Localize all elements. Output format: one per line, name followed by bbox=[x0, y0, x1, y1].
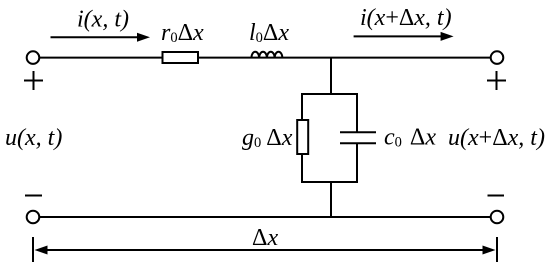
parallel box bottom bar bbox=[302, 181, 357, 183]
svg-text:i(x+Δx, t): i(x+Δx, t) bbox=[360, 5, 452, 31]
svg-text:l0Δx: l0Δx bbox=[249, 20, 289, 46]
dimension tick left bbox=[32, 237, 34, 262]
node stem bottom bbox=[330, 182, 332, 217]
minus sign right bbox=[488, 195, 505, 197]
minus sign left bbox=[25, 195, 42, 197]
wire right branch upper bbox=[356, 93, 358, 132]
inductor L l0dx bbox=[251, 52, 282, 58]
parallel box top bar bbox=[302, 93, 357, 95]
dimension line bbox=[45, 249, 485, 251]
svg-text:u(x, t): u(x, t) bbox=[5, 125, 62, 151]
terminal circle top-left bbox=[27, 51, 40, 64]
resistor R r0dx bbox=[163, 52, 199, 63]
capacitor C c0dx bbox=[340, 132, 376, 143]
dimension tick right bbox=[496, 237, 498, 262]
terminal circle bottom-left bbox=[27, 211, 40, 224]
current arrow i(x,t) bbox=[51, 33, 151, 42]
node stem top bbox=[330, 58, 332, 94]
current arrow i(x+dx,t) bbox=[354, 32, 454, 41]
dimension arrowhead right bbox=[483, 246, 496, 255]
wire left branch lower bbox=[301, 154, 303, 183]
top wire bbox=[40, 57, 491, 59]
terminal circle bottom-right bbox=[491, 211, 504, 224]
bottom wire bbox=[40, 216, 491, 218]
plus sign left bbox=[24, 71, 43, 90]
wire right branch lower bbox=[356, 143, 358, 183]
svg-text:g0Δx: g0Δx bbox=[242, 125, 293, 151]
conductance G g0dx bbox=[297, 120, 308, 154]
terminal circle top-right bbox=[491, 51, 504, 64]
svg-text:Δx: Δx bbox=[252, 225, 278, 251]
svg-text:i(x, t): i(x, t) bbox=[77, 6, 129, 32]
dimension arrowhead left bbox=[35, 246, 48, 255]
svg-text:r0Δx: r0Δx bbox=[161, 20, 204, 46]
plus sign right bbox=[487, 71, 506, 90]
wire left branch upper bbox=[301, 93, 303, 120]
svg-text:c0Δx: c0Δx bbox=[384, 125, 436, 151]
svg-text:u(x+Δx, t): u(x+Δx, t) bbox=[448, 125, 545, 151]
